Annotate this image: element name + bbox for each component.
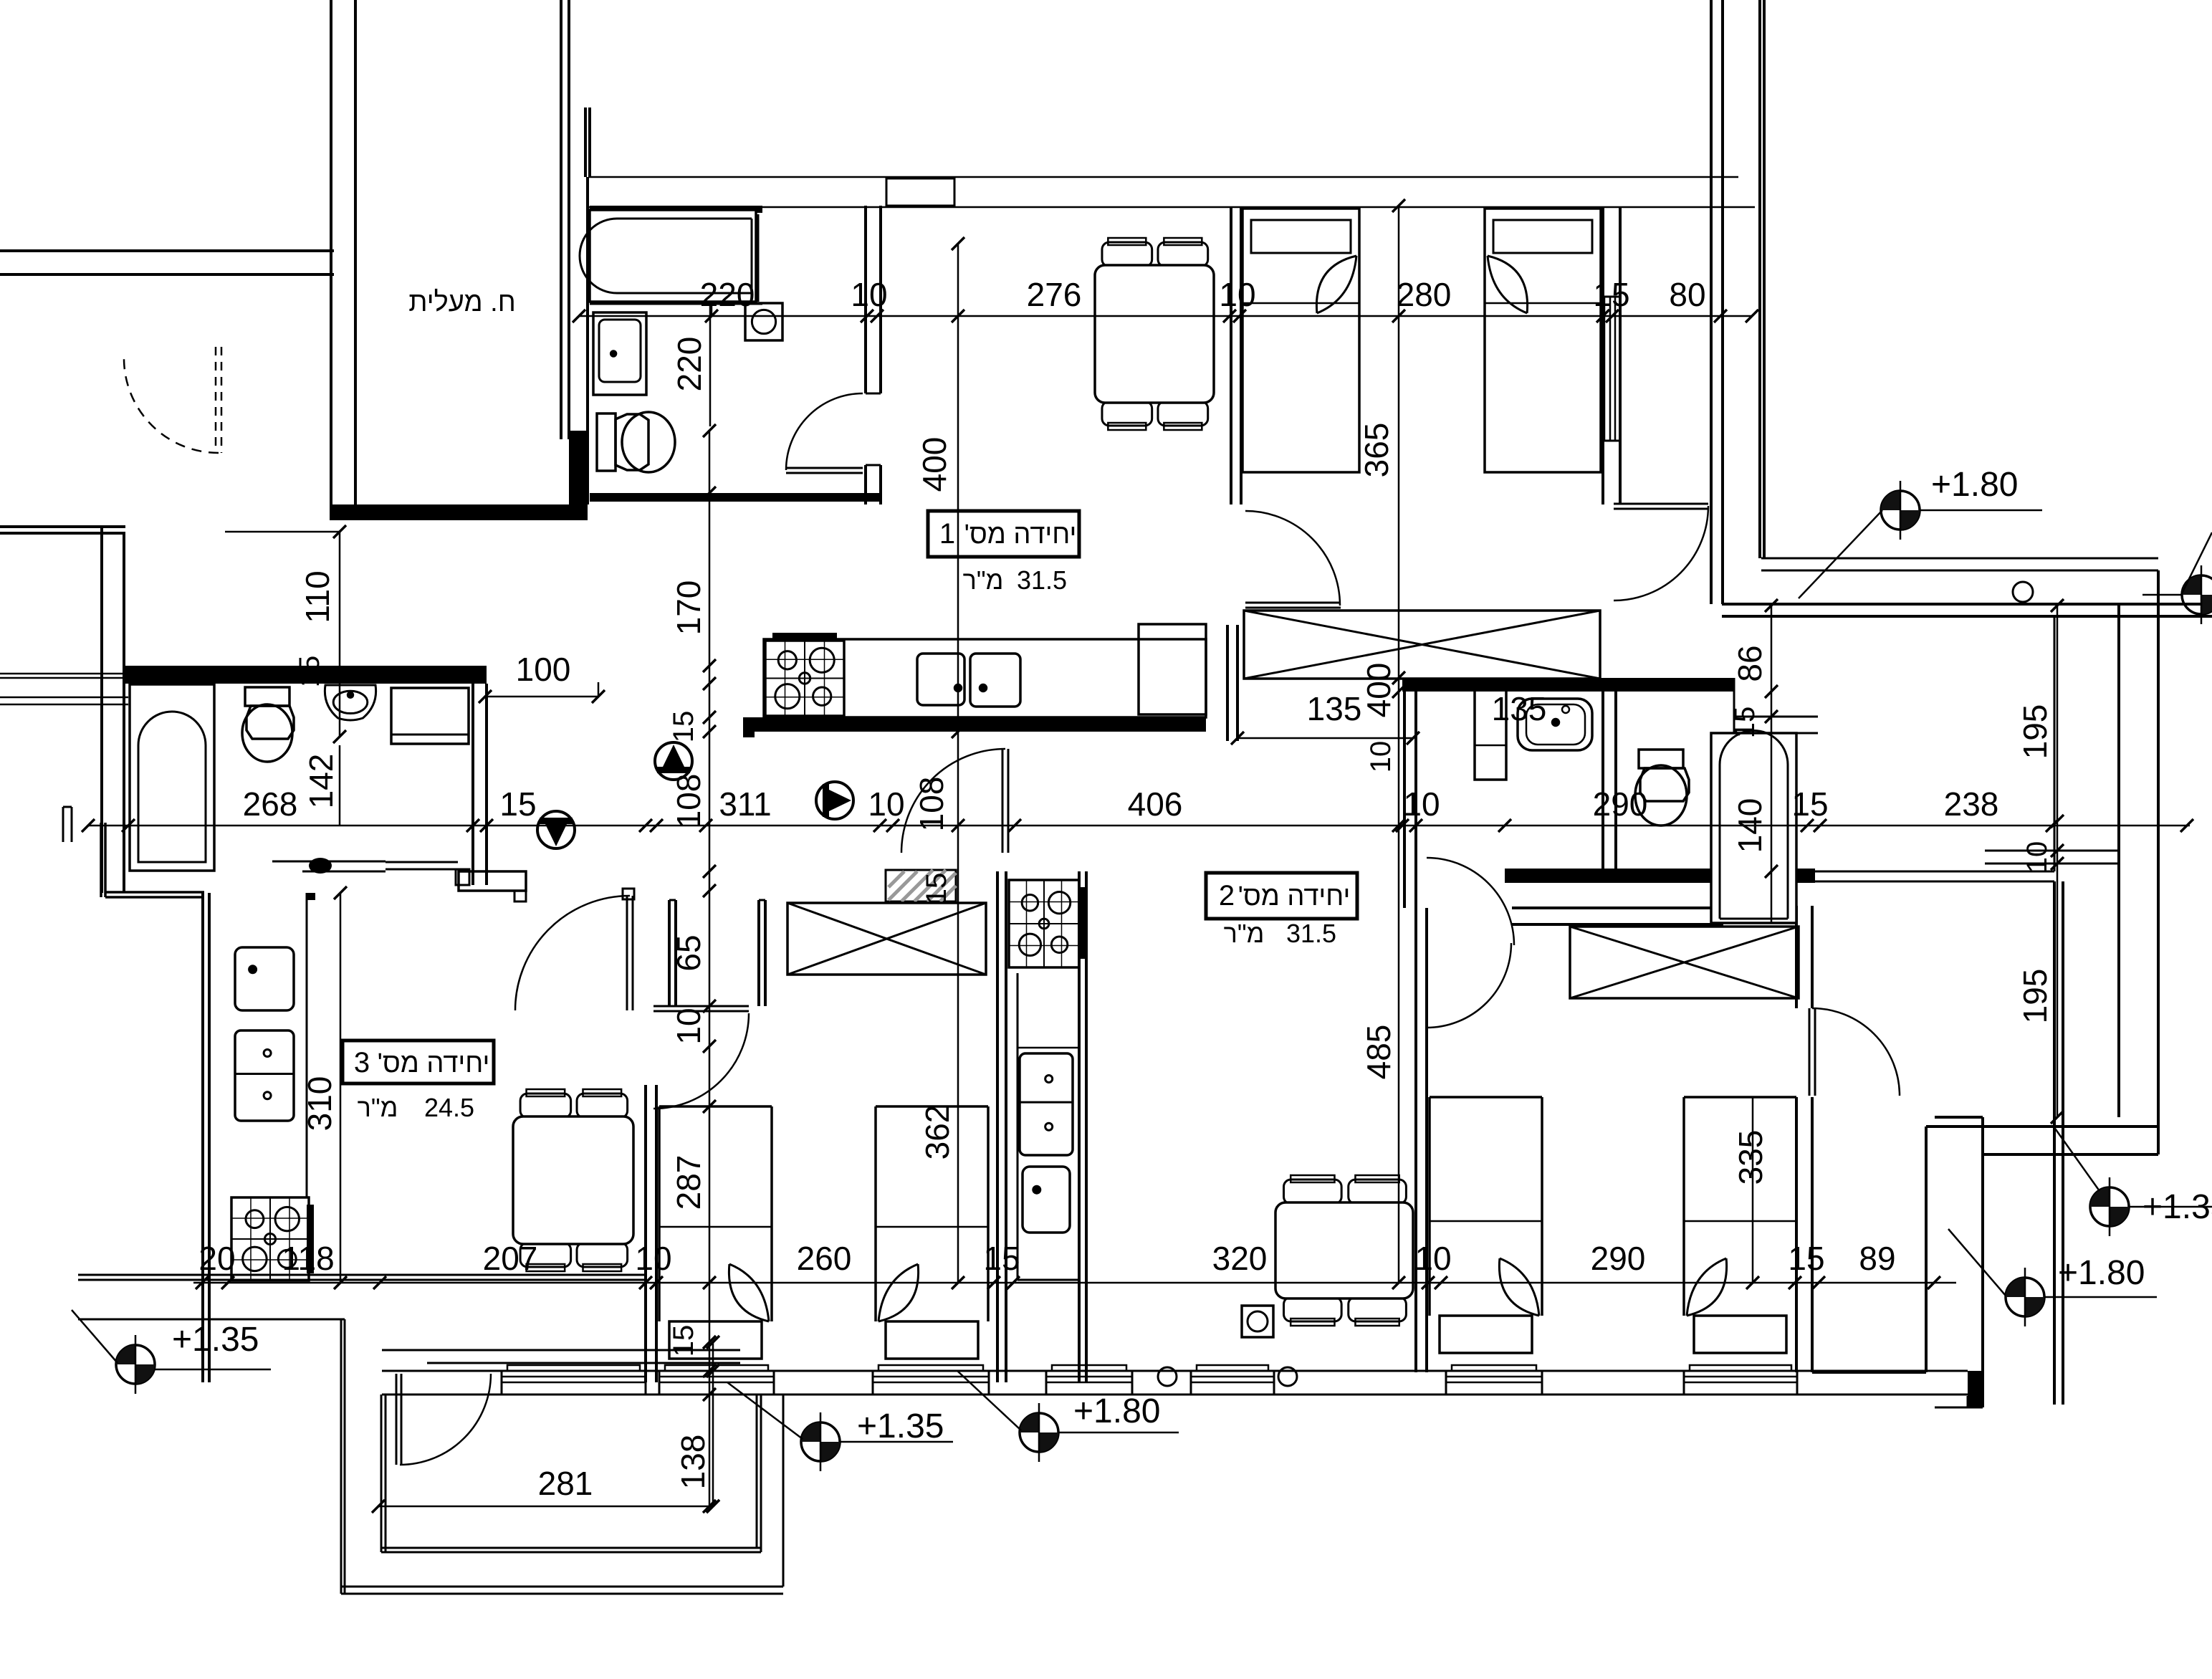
- wall top-left horizontal double: [0, 249, 334, 252]
- svg-text:15: 15: [1729, 707, 1761, 739]
- wall unit2 niche box: [668, 900, 671, 1006]
- wall unit3 bath bottom slide door: [272, 861, 386, 863]
- svg-text:310: 310: [301, 1076, 338, 1132]
- window handle circle: [1158, 1367, 1177, 1386]
- svg-text:מ"ר: מ"ר: [358, 1093, 398, 1122]
- svg-text:335: 335: [1732, 1130, 1769, 1185]
- door unit2 bath upper: [1427, 943, 1511, 1028]
- svg-text:406: 406: [1128, 785, 1183, 823]
- svg-text:10: 10: [2021, 841, 2053, 874]
- svg-text:15: 15: [499, 785, 536, 823]
- svg-text:מ"ר: מ"ר: [1224, 919, 1265, 948]
- dim line 142: [339, 745, 341, 826]
- bed unit2 b: [1682, 1097, 1685, 1316]
- svg-text:320: 320: [1212, 1240, 1268, 1277]
- marker +1.35 left: [116, 1345, 155, 1384]
- wall kitchen1 right end: [1226, 625, 1229, 741]
- door handle black oval: [309, 858, 332, 874]
- fridge unit3: [235, 1030, 294, 1121]
- dim line 138-15: [712, 1342, 714, 1506]
- svg-text:311: 311: [719, 785, 771, 823]
- hatched wall piece: [886, 870, 956, 901]
- svg-text:142: 142: [302, 754, 340, 809]
- bed unit2 a: [1428, 1097, 1431, 1316]
- wall unit2 bedroom top: [1512, 907, 1723, 909]
- svg-text:287: 287: [670, 1155, 707, 1210]
- svg-text:מ"ר: מ"ר: [963, 565, 1004, 595]
- kitchen counter unit1: [764, 639, 1206, 717]
- door entry dashed top-left: [124, 358, 219, 453]
- wardrobe unit2: [1570, 927, 1799, 998]
- sink unit2 bath: [1518, 699, 1592, 750]
- wall unit3 bath bottom-left step: [100, 823, 102, 897]
- wall unit3 left vertical: [100, 527, 103, 893]
- svg-text:10: 10: [1219, 276, 1255, 313]
- svg-text:135: 135: [1307, 690, 1362, 727]
- dim line 110: [339, 532, 341, 737]
- dim line 195s: [2057, 606, 2059, 1117]
- marker right edge: [2182, 575, 2212, 614]
- door unit2 bath lower: [1427, 858, 1514, 945]
- door unit1 bedroom a: [1245, 511, 1340, 606]
- svg-text:485: 485: [1360, 1025, 1397, 1080]
- svg-text:15: 15: [1791, 785, 1828, 823]
- bathtub unit1: [590, 210, 756, 302]
- wall bottom right step: [1967, 1396, 1969, 1407]
- svg-text:2: 2: [1219, 880, 1235, 912]
- wall top-right horizontal inner: [1761, 558, 2158, 560]
- svg-text:+1.80: +1.80: [1073, 1392, 1160, 1430]
- dim line top: [579, 315, 1752, 317]
- svg-text:+1.35: +1.35: [857, 1407, 944, 1445]
- sink unit3: [235, 947, 294, 1010]
- svg-text:290: 290: [1593, 785, 1648, 823]
- bed unit3 b: [874, 1106, 877, 1321]
- dim line 310: [340, 893, 342, 1283]
- window bottom wall: [872, 1371, 874, 1395]
- wall unit1 bath left upper: [584, 107, 587, 177]
- svg-text:15: 15: [1593, 276, 1629, 313]
- stove unit3: [231, 1197, 309, 1281]
- wall unit1 bedroom window wall: [1601, 207, 1604, 504]
- wall elevator shaft right: [560, 0, 562, 439]
- svg-text:195: 195: [2016, 704, 2054, 760]
- fridge unit2: [1020, 1053, 1073, 1155]
- svg-text:365: 365: [1358, 423, 1395, 478]
- wall unit3 bath top: [125, 666, 487, 684]
- svg-text:281: 281: [538, 1465, 593, 1502]
- dim line 220v: [709, 302, 712, 426]
- marker rotation s1: [537, 811, 575, 848]
- svg-text:135: 135: [1492, 690, 1547, 727]
- wall unit3 bedroom right / unit2 wall: [996, 871, 999, 1382]
- window bottom wall: [1190, 1371, 1192, 1395]
- wall unit2 bedroom right: [1795, 906, 1798, 1008]
- svg-text:108: 108: [913, 777, 950, 832]
- wall right balcony outer vertical: [2157, 570, 2160, 1154]
- svg-text:10: 10: [1403, 785, 1440, 823]
- wall left exterior double lines: [0, 673, 128, 675]
- wall right lower horizontals: [1935, 1116, 1983, 1119]
- svg-text:268: 268: [243, 785, 298, 823]
- svg-text:108: 108: [670, 774, 707, 829]
- wall unit1 bath left: [586, 177, 589, 504]
- door balcony unit3: [400, 1374, 491, 1465]
- svg-text:3: 3: [354, 1047, 370, 1078]
- toilet unit3: [245, 687, 289, 706]
- door unit2 bedroom: [1812, 1008, 1900, 1096]
- bed unit1 a: [1243, 209, 1359, 472]
- marker rotation s3: [816, 782, 853, 819]
- toilet unit1: [597, 413, 616, 471]
- wall balcony top band: [382, 1349, 740, 1352]
- svg-text:86: 86: [1731, 645, 1768, 681]
- window bottom wall: [1683, 1371, 1685, 1395]
- wall elevator shaft left: [330, 0, 332, 504]
- window bottom wall: [659, 1371, 661, 1395]
- svg-text:15: 15: [668, 711, 699, 743]
- marker +1.35 right: [2090, 1187, 2129, 1226]
- window bottom wall: [501, 1371, 503, 1395]
- window bottom wall: [1045, 1371, 1048, 1395]
- svg-text:10: 10: [868, 785, 904, 823]
- svg-text:10: 10: [670, 1008, 707, 1044]
- svg-text:יחידה מס': יחידה מס': [1238, 881, 1351, 912]
- high chair unit2: [1242, 1306, 1273, 1337]
- svg-text:15: 15: [921, 873, 952, 905]
- dim line left vertical chain: [709, 431, 711, 1506]
- marker +1.35 center: [801, 1422, 840, 1461]
- svg-text:10: 10: [851, 276, 887, 313]
- dim line 400: [957, 244, 959, 1283]
- wall unit2 kitchen right: [1078, 871, 1081, 1382]
- svg-text:10: 10: [1365, 741, 1397, 773]
- counter unit3 bath: [391, 688, 469, 744]
- svg-text:10: 10: [1414, 1240, 1451, 1277]
- wall unit2 bath mid: [1601, 692, 1604, 869]
- svg-text:100: 100: [516, 651, 571, 688]
- wall unit2 bath bottom: [1505, 869, 1815, 883]
- dining table unit2: [1284, 1180, 1342, 1204]
- wall balcony inner: [380, 1395, 383, 1552]
- double sink unit1: [917, 654, 964, 705]
- wall balcony bottom outer: [341, 1586, 783, 1588]
- svg-text:יחידה מס': יחידה מס': [964, 520, 1077, 550]
- svg-text:276: 276: [1027, 276, 1082, 313]
- label unit2 box: [1206, 873, 1357, 919]
- wall unit3 bath right: [471, 684, 474, 885]
- svg-text:80: 80: [1669, 276, 1705, 313]
- svg-text:10: 10: [635, 1240, 671, 1277]
- fridge unit1: [1139, 624, 1206, 714]
- label unit3 box: [343, 1041, 494, 1084]
- marker +1.80 topright: [1881, 491, 1920, 530]
- washing machine unit1: [745, 303, 782, 340]
- svg-text:יחידה מס': יחידה מס': [378, 1048, 490, 1078]
- sink unit3 bath: [325, 685, 375, 720]
- wall elevator shaft bottom: [330, 504, 588, 520]
- dim line 335: [1752, 1097, 1754, 1283]
- dim line middle: [88, 825, 2190, 827]
- svg-text:238: 238: [1944, 785, 1999, 823]
- door elevator lobby dashed: [330, 358, 332, 502]
- wall terrace top-left horizontal: [78, 1319, 345, 1321]
- svg-text:400: 400: [1360, 663, 1397, 718]
- shower unit1: [593, 312, 646, 395]
- wall unit1 bath top: [590, 206, 762, 213]
- wall right balcony middle vertical: [2117, 606, 2120, 1117]
- door unit1 bath: [786, 393, 863, 470]
- door corridor unit3: [515, 896, 630, 1010]
- svg-text:15: 15: [983, 1240, 1020, 1277]
- wall balcony left outer: [340, 1319, 343, 1594]
- svg-text:110: 110: [299, 570, 336, 623]
- svg-text:280: 280: [1397, 276, 1452, 313]
- dim line 86-140: [1771, 606, 1773, 923]
- svg-text:20: 20: [198, 1240, 235, 1277]
- wall left edge stub: [62, 807, 64, 842]
- label unit1 box: [928, 511, 1079, 557]
- counter unit2 bath: [1475, 687, 1506, 780]
- circle on top-right wall: [2013, 582, 2033, 602]
- dining table unit3: [520, 1094, 571, 1118]
- dim line 100: [485, 696, 598, 698]
- wall unit2 bedroom left: [1414, 908, 1417, 1372]
- wall right mid double: [1985, 850, 2119, 852]
- svg-text:220: 220: [671, 337, 708, 392]
- svg-text:138: 138: [674, 1435, 712, 1490]
- stove unit2: [1009, 880, 1079, 967]
- bed unit3 a: [658, 1106, 661, 1321]
- toilet unit2: [1639, 750, 1683, 768]
- svg-text:65: 65: [670, 934, 707, 971]
- wall balcony right long vertical: [2054, 616, 2056, 871]
- wall unit3 top-left horizontal: [0, 525, 125, 528]
- svg-text:24.5: 24.5: [424, 1093, 474, 1122]
- window bottom wall: [1445, 1371, 1447, 1395]
- wall unit2 bath right to balcony: [1815, 871, 2054, 873]
- wall unit3 kitchen inner edge: [306, 893, 308, 1197]
- wardrobe unit1: [1244, 611, 1600, 679]
- svg-text:+1.35: +1.35: [172, 1321, 259, 1359]
- kitchen counter unit2: [1017, 973, 1019, 1280]
- wall unit2 bath top: [1402, 678, 1734, 692]
- wall building bottom band: [382, 1370, 1968, 1372]
- svg-text:31.5: 31.5: [1286, 919, 1336, 948]
- svg-text:170: 170: [670, 580, 707, 636]
- svg-text:+1.80: +1.80: [1931, 466, 2018, 504]
- svg-text:195: 195: [2016, 969, 2054, 1024]
- svg-text:140: 140: [1731, 798, 1768, 853]
- wall unit3 bedroom left: [644, 1085, 647, 1382]
- svg-text:15: 15: [668, 1325, 699, 1357]
- wall unit1 bath right: [864, 206, 867, 393]
- svg-text:31.5: 31.5: [1017, 565, 1067, 595]
- wall top second line: [588, 206, 1755, 209]
- svg-text:290: 290: [1591, 1240, 1646, 1277]
- svg-text:220: 220: [700, 276, 755, 313]
- wall unit3 kitchen left: [201, 893, 204, 1382]
- sink unit2: [1023, 1167, 1070, 1233]
- dim line 135a: [1237, 737, 1413, 740]
- svg-text:ח. מעלית: ח. מעלית: [408, 287, 515, 317]
- wall corridor bottom-left: [459, 871, 526, 891]
- marker rotation s2: [655, 742, 692, 780]
- window unit1 bedroom: [1604, 297, 1606, 441]
- svg-text:400: 400: [916, 437, 953, 492]
- svg-text:15: 15: [294, 656, 325, 688]
- wall step piece right of shaft: [569, 431, 588, 504]
- wardrobe corridor: [787, 903, 986, 975]
- svg-text:362: 362: [919, 1105, 956, 1160]
- svg-text:89: 89: [1859, 1240, 1895, 1277]
- svg-text:15: 15: [1788, 1240, 1824, 1277]
- wall right vertical pair top: [1710, 0, 1713, 604]
- door unit2 niche: [653, 1013, 749, 1109]
- niche recess top: [886, 178, 954, 206]
- svg-text:118: 118: [282, 1240, 334, 1277]
- svg-text:260: 260: [797, 1240, 852, 1277]
- wall unit1 bath bottom: [590, 493, 881, 502]
- wall unit2 hall left: [1403, 692, 1406, 908]
- wall unit1 dining divider: [1230, 206, 1232, 504]
- wall top boundary thin: [588, 176, 1738, 178]
- marker +1.80 center: [1020, 1413, 1058, 1452]
- dim line balcony: [378, 1506, 713, 1508]
- dim line 365-485: [1398, 206, 1400, 1283]
- wall unit3 living bottom: [78, 1274, 646, 1276]
- door unit1 bedroom b: [1614, 506, 1708, 601]
- svg-text:207: 207: [483, 1240, 538, 1277]
- marker +1.80 right: [2006, 1278, 2044, 1316]
- wall kitchen1 bottom: [743, 717, 1206, 732]
- svg-text:+1.80: +1.80: [2058, 1254, 2145, 1292]
- svg-text:1: 1: [939, 518, 955, 550]
- door unit1 entry: [901, 749, 1005, 853]
- bathtub unit2: [1711, 733, 1796, 923]
- stove unit1: [772, 633, 837, 639]
- dim line bottom: [193, 1282, 1956, 1284]
- wall bottom-right terrace: [1926, 1125, 2158, 1128]
- wall top-right horizontal outer: [1722, 603, 2212, 606]
- dining table unit1: [1102, 242, 1152, 267]
- bathtub unit3: [130, 684, 214, 871]
- bed unit1 b: [1485, 209, 1601, 472]
